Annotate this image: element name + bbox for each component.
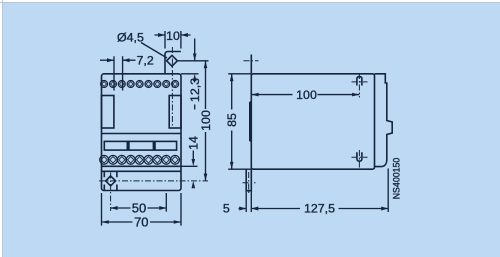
screw bottom xyxy=(357,152,362,161)
svg-text:127,5: 127,5 xyxy=(304,202,335,216)
svg-text:70: 70 xyxy=(134,214,148,229)
svg-text:100: 100 xyxy=(296,88,317,102)
centerlines side xyxy=(243,61,368,195)
svg-text:5: 5 xyxy=(223,202,230,216)
svg-text:50: 50 xyxy=(132,200,146,215)
ext lines 85 xyxy=(228,74,251,169)
diamond hole top xyxy=(167,55,178,66)
arrow 12,3 bottom (up) xyxy=(193,74,197,81)
screw top xyxy=(357,77,362,86)
svg-text:7,2: 7,2 xyxy=(137,54,154,68)
dim line 7,2 left tail xyxy=(100,59,114,61)
dim line 100 side xyxy=(251,94,359,96)
dimension texts side xyxy=(223,88,402,216)
foot edge-on xyxy=(246,169,251,191)
ext lines 7,2 xyxy=(114,56,123,90)
dim line 85 xyxy=(231,74,233,169)
bottom hole axis vertical xyxy=(248,172,250,195)
dim line 100 front xyxy=(205,61,207,181)
label box xyxy=(104,141,176,150)
svg-text:100: 100 xyxy=(199,110,213,131)
screw bottom centerlines xyxy=(352,150,368,169)
centerline vertical through bottom diamond xyxy=(110,173,112,212)
arrowheads side xyxy=(230,74,388,211)
svg-text:14: 14 xyxy=(187,136,201,150)
lower strip bottom edge xyxy=(102,165,182,167)
arrow 100s right xyxy=(352,93,359,97)
foot top edge xyxy=(102,170,182,172)
dim line 12,3 xyxy=(194,39,196,110)
screw top centerlines xyxy=(352,73,368,98)
arrow 70 right xyxy=(174,220,181,224)
arrow 14 top (down) xyxy=(192,159,196,166)
ext line 50 right xyxy=(165,193,167,212)
side body outline xyxy=(251,74,374,169)
diamond hole bottom xyxy=(106,176,116,186)
top terminal circles row xyxy=(101,81,179,88)
front view top mounting tab xyxy=(165,52,181,74)
arrow 50 right xyxy=(159,206,166,210)
dimensions front view xyxy=(100,31,209,226)
arrow 10 left xyxy=(158,33,165,37)
rear plate xyxy=(375,74,393,167)
front face step xyxy=(250,102,252,142)
arrowheads front xyxy=(102,33,208,224)
arrow 10 right xyxy=(181,33,188,37)
centerline horizontal through bottom diamond xyxy=(99,180,208,182)
dim line 127,5 xyxy=(251,208,388,210)
dim line 14 tail xyxy=(192,151,194,160)
ext line 127,5 right xyxy=(387,169,389,213)
ext lines 10 xyxy=(165,31,181,49)
centerline vertical through top diamond xyxy=(171,47,173,128)
front view body outline xyxy=(102,74,182,191)
bottom terminal circles row xyxy=(100,155,180,164)
dimension texts front xyxy=(117,29,213,230)
ext strip bottom right (14) xyxy=(181,165,198,167)
dim line 10 tails xyxy=(155,34,191,36)
ext hole center level right xyxy=(177,60,208,62)
mid-section right column xyxy=(169,96,181,129)
leader line dia 4,5 xyxy=(141,43,167,59)
dim line 70 xyxy=(102,221,182,223)
ext top edge right (12,3) xyxy=(181,73,199,75)
svg-text:85: 85 xyxy=(225,113,239,127)
bottom hole centerline horizontal xyxy=(243,182,256,184)
arrow 50 left xyxy=(111,206,118,210)
arrow 127,5 right xyxy=(381,207,388,211)
lower strip top edge xyxy=(102,133,182,135)
bottom hole bracket xyxy=(104,171,117,190)
arrow 7,2 left xyxy=(107,58,114,62)
arrow 100f bottom xyxy=(204,174,208,181)
top tab edge-on xyxy=(250,55,252,74)
dimensions side view xyxy=(228,74,388,212)
dim line 7,2 right tail xyxy=(123,59,136,61)
arrow 70 left xyxy=(102,220,109,224)
dim line 50 xyxy=(111,207,167,209)
mid-section left column xyxy=(102,96,114,129)
arrow 85 bottom xyxy=(230,162,234,169)
centerlines front xyxy=(99,47,208,211)
ext lines 5 xyxy=(246,191,251,212)
label box dividers xyxy=(127,141,155,150)
arrow 100f top xyxy=(204,61,208,68)
arrow 85 top xyxy=(230,74,234,81)
top hole centerline cross xyxy=(244,60,259,62)
arrow 7,2 right xyxy=(123,58,130,62)
dim line 5 left tail xyxy=(239,208,247,210)
arrow 5 (right pointing) xyxy=(239,207,246,211)
arrow 12,3 top (down) xyxy=(193,54,197,61)
arrow 14 bottom (up) xyxy=(192,181,196,188)
svg-text:Ø4,5: Ø4,5 xyxy=(117,31,144,45)
arrow 100s left xyxy=(251,93,258,97)
svg-text:12,3: 12,3 xyxy=(188,78,202,102)
ext lines 70 xyxy=(102,193,182,226)
svg-text:NS400150: NS400150 xyxy=(392,158,402,200)
svg-text:10: 10 xyxy=(166,29,180,43)
arrow 127,5 left xyxy=(251,207,258,211)
